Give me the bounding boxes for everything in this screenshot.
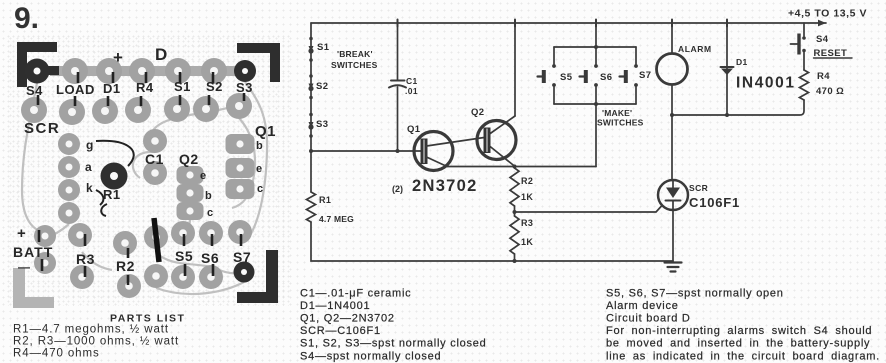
svg-text:4.7 MEG: 4.7 MEG xyxy=(319,214,354,224)
svg-text:D: D xyxy=(155,45,168,64)
svg-text:SCR: SCR xyxy=(689,183,708,193)
svg-text:S5: S5 xyxy=(560,72,573,83)
svg-text:—: — xyxy=(18,260,31,274)
svg-text:S5: S5 xyxy=(175,248,193,264)
svg-text:.01: .01 xyxy=(405,86,418,96)
svg-text:ALARM: ALARM xyxy=(678,44,712,54)
svg-text:S6: S6 xyxy=(600,72,612,83)
svg-text:BATT: BATT xyxy=(13,244,53,260)
svg-text:Q1: Q1 xyxy=(255,123,276,140)
svg-text:+: + xyxy=(17,225,26,242)
svg-text:SCR: SCR xyxy=(24,120,60,137)
svg-text:S4—spst normally closed: S4—spst normally closed xyxy=(300,350,441,362)
svg-text:C1: C1 xyxy=(406,76,418,86)
svg-text:'BREAK': 'BREAK' xyxy=(337,49,373,59)
svg-text:S4: S4 xyxy=(816,34,829,45)
svg-text:g: g xyxy=(86,138,93,152)
svg-text:C106F1: C106F1 xyxy=(689,195,740,210)
svg-text:be moved and inserted in the b: be moved and inserted in the battery-sup… xyxy=(606,338,870,350)
svg-text:S4: S4 xyxy=(26,83,43,98)
svg-text:(2): (2) xyxy=(392,184,403,194)
svg-text:1K: 1K xyxy=(521,237,533,247)
svg-text:D1—1N4001: D1—1N4001 xyxy=(300,300,370,312)
svg-text:R1—4.7 megohms, ½ watt: R1—4.7 megohms, ½ watt xyxy=(13,324,169,336)
svg-text:S7: S7 xyxy=(639,70,651,81)
svg-text:S2: S2 xyxy=(206,79,223,94)
svg-text:S5, S6, S7—spst normally open: S5, S6, S7—spst normally open xyxy=(606,288,784,300)
svg-text:C1: C1 xyxy=(145,151,164,167)
svg-text:Q1: Q1 xyxy=(407,124,421,135)
svg-text:R2, R3—1000 ohms, ½ watt: R2, R3—1000 ohms, ½ watt xyxy=(13,336,179,348)
svg-text:C1—.01-μF ceramic: C1—.01-μF ceramic xyxy=(300,288,411,300)
svg-text:SWITCHES: SWITCHES xyxy=(597,118,644,128)
svg-text:Q2: Q2 xyxy=(471,107,484,118)
svg-text:R4: R4 xyxy=(817,71,830,82)
svg-text:b: b xyxy=(256,140,263,152)
svg-text:9.: 9. xyxy=(14,2,39,35)
svg-text:R2: R2 xyxy=(521,176,533,186)
svg-text:a: a xyxy=(85,160,92,174)
svg-text:Circuit board D: Circuit board D xyxy=(606,313,691,325)
svg-text:LOAD: LOAD xyxy=(56,82,95,97)
svg-text:+: + xyxy=(113,48,123,67)
svg-text:RESET: RESET xyxy=(814,48,848,59)
svg-text:'MAKE': 'MAKE' xyxy=(602,108,632,118)
svg-text:For non-interrupting alarms sw: For non-interrupting alarms switch S4 sh… xyxy=(606,325,872,337)
svg-text:S1: S1 xyxy=(174,79,191,94)
svg-text:S7: S7 xyxy=(233,249,251,265)
svg-text:S3: S3 xyxy=(236,80,253,95)
svg-text:b: b xyxy=(205,190,212,202)
svg-text:Q1, Q2—2N3702: Q1, Q2—2N3702 xyxy=(300,313,395,325)
svg-text:SCR—C106F1: SCR—C106F1 xyxy=(300,325,381,337)
svg-text:e: e xyxy=(200,170,206,182)
svg-text:R3: R3 xyxy=(76,251,95,267)
svg-text:1K: 1K xyxy=(521,192,533,202)
svg-text:SWITCHES: SWITCHES xyxy=(331,60,378,70)
svg-text:line as indicated in the circu: line as indicated in the circuit board d… xyxy=(606,350,880,362)
svg-text:D1: D1 xyxy=(103,81,121,96)
svg-text:R1: R1 xyxy=(103,187,121,202)
svg-text:R1: R1 xyxy=(319,195,331,205)
svg-text:+4,5 TO 13,5 V: +4,5 TO 13,5 V xyxy=(788,8,867,20)
svg-text:R3: R3 xyxy=(521,218,533,228)
svg-text:S2: S2 xyxy=(316,81,328,92)
svg-text:S1: S1 xyxy=(317,42,330,53)
svg-text:R4: R4 xyxy=(136,80,154,95)
svg-text:S3: S3 xyxy=(316,119,328,130)
svg-text:470 Ω: 470 Ω xyxy=(816,86,844,97)
svg-text:Alarm device: Alarm device xyxy=(606,300,679,312)
svg-text:Q2: Q2 xyxy=(179,151,199,167)
svg-text:2N3702: 2N3702 xyxy=(412,177,478,195)
svg-text:c: c xyxy=(207,207,213,219)
svg-text:D1: D1 xyxy=(736,57,748,67)
svg-text:R4—470 ohms: R4—470 ohms xyxy=(13,348,100,360)
svg-text:e: e xyxy=(256,163,262,175)
svg-text:IN4001: IN4001 xyxy=(736,75,796,92)
svg-text:k: k xyxy=(86,181,93,195)
svg-text:S1, S2, S3—spst normally close: S1, S2, S3—spst normally closed xyxy=(300,338,487,350)
svg-text:R2: R2 xyxy=(116,258,135,274)
svg-text:S6: S6 xyxy=(201,250,219,266)
svg-text:c: c xyxy=(257,183,263,195)
